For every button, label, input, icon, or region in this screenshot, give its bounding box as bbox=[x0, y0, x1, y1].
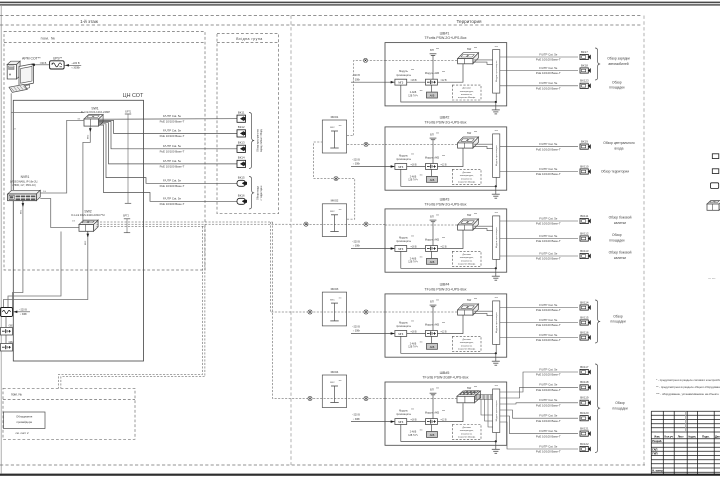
svg-text:ШВ#5: ШВ#5 bbox=[440, 371, 450, 375]
group text area row5 bbox=[612, 401, 627, 410]
cable label F/UTP ВК119 bbox=[536, 398, 561, 407]
svg-text:PoE 10/100 Base-T: PoE 10/100 Base-T bbox=[536, 338, 561, 342]
svg-text:PoE 10/100 Base-T: PoE 10/100 Base-T bbox=[160, 150, 185, 154]
svg-text:Датчики: Датчики bbox=[462, 172, 471, 174]
svg-text:вскрытия Шкафа: вскрытия Шкафа bbox=[458, 181, 476, 184]
text side gate 2 bbox=[609, 251, 632, 260]
svg-text:***: *** bbox=[420, 341, 423, 344]
battery GB1 bbox=[1, 317, 15, 336]
cabinet ШВ#3 box bbox=[385, 209, 507, 272]
svg-text:***: *** bbox=[436, 132, 439, 136]
svg-text:ВК17: ВК17 bbox=[581, 50, 588, 54]
surge module МГЗ of ШВ#4 bbox=[395, 320, 414, 336]
svg-text:F/UTP Cat. 5e: F/UTP Cat. 5e bbox=[539, 81, 558, 85]
camera ВК120 bbox=[580, 411, 591, 421]
surge module МГЗ of ШВ#1 bbox=[395, 69, 414, 85]
surge module МГЗ of ШВ#5 bbox=[395, 408, 414, 424]
svg-text:грозозащиты: грозозащиты bbox=[396, 158, 411, 161]
legend icon UPS bbox=[711, 183, 719, 189]
svg-text:МК01: МК01 bbox=[331, 115, 339, 119]
camera feed wires of ШВ#4 bbox=[500, 308, 578, 338]
svg-text:ШВ#3: ШВ#3 bbox=[440, 198, 450, 202]
cable label F/UTP BK15 bbox=[160, 179, 185, 188]
cabinet ШВ#2 title bbox=[424, 116, 466, 125]
power stub below NVR bbox=[20, 201, 24, 214]
svg-text:влажности,: влажности, bbox=[461, 94, 473, 96]
switch SW of ШВ#3 bbox=[458, 212, 479, 230]
cable label F/UTP ВК114 bbox=[536, 303, 561, 312]
cable label F/UTP ВК113 bbox=[536, 251, 561, 260]
ground symbol of ШВ#5 bbox=[492, 445, 500, 453]
svg-text:влажности,: влажности, bbox=[461, 433, 473, 435]
surge protection module of ШВ#4 bbox=[493, 296, 500, 344]
svg-text:~220 В: ~220 В bbox=[19, 309, 27, 312]
power supply БП of ШВ#2 bbox=[430, 132, 439, 164]
fiber splice box МК02 bbox=[322, 199, 346, 237]
camera ВК110 bbox=[580, 164, 591, 174]
group text area row4 bbox=[610, 314, 625, 323]
svg-text:SW: SW bbox=[467, 47, 472, 51]
battery АКБ of ШВ#1 bbox=[408, 85, 437, 98]
svg-text:PoE 10/100 Base-T: PoE 10/100 Base-T bbox=[536, 257, 561, 261]
svg-text:МКС: МКС bbox=[330, 382, 335, 384]
legend icon camera 2 bbox=[712, 169, 719, 174]
svg-text:БРТ2: БРТ2 bbox=[123, 215, 130, 218]
svg-text:Модуль АКБ: Модуль АКБ bbox=[425, 156, 440, 159]
svg-text:АКБ: АКБ bbox=[430, 95, 435, 98]
fiber uplink MK02 to MK01 bbox=[314, 142, 355, 219]
svg-text:***: *** bbox=[420, 174, 423, 177]
sensors box of ШВ#4 bbox=[452, 336, 481, 351]
svg-text:ВК13: ВК13 bbox=[238, 141, 245, 145]
svg-text:Кол.уч: Кол.уч bbox=[664, 434, 673, 438]
svg-text:***: *** bbox=[339, 125, 342, 128]
svg-text:Обзор: Обзор bbox=[613, 314, 623, 318]
svg-text:МГЗ: МГЗ bbox=[398, 166, 403, 169]
svg-text:=12 В: =12 В bbox=[440, 332, 447, 334]
fiber splice box МК03 bbox=[322, 287, 346, 326]
svg-text:PoE 10/100 Base-T: PoE 10/100 Base-T bbox=[536, 71, 561, 75]
svg-text:F/UTP Cat. 5e: F/UTP Cat. 5e bbox=[539, 251, 558, 255]
sheet top border bbox=[0, 2, 720, 4]
svg-text:Датчики: Датчики bbox=[462, 339, 471, 341]
svg-text:Модуль грозозащиты: Модуль грозозащиты bbox=[496, 60, 498, 82]
svg-text:1-й этаж: 1-й этаж bbox=[80, 18, 99, 24]
svg-text:=36 В: =36 В bbox=[40, 62, 47, 65]
svg-text:МКС: МКС bbox=[330, 127, 335, 129]
sensors box of ШВ#1 bbox=[452, 85, 481, 100]
svg-text:F/UTP Cat. 5e: F/UTP Cat. 5e bbox=[163, 197, 182, 201]
camera feed wires of ШВ#5 bbox=[500, 372, 578, 449]
wire МГЗ to АКБ =18V ШВ#4 bbox=[407, 332, 426, 334]
fiber pair to provider room sheet 2 bbox=[59, 226, 205, 388]
svg-text:F/UTP Cat. 5e: F/UTP Cat. 5e bbox=[539, 142, 558, 146]
svg-text:SW: SW bbox=[467, 131, 472, 135]
svg-text:***: *** bbox=[339, 297, 342, 300]
svg-text:грозозащиты: грозозащиты bbox=[396, 325, 411, 328]
camera ВК111 bbox=[580, 214, 591, 224]
svg-text:=12 В: =12 В bbox=[440, 247, 447, 249]
svg-text:ВК111: ВК111 bbox=[580, 214, 588, 218]
power stub ~220V ШВ#5 bbox=[351, 413, 395, 422]
wires SW to surge module ШВ#3 bbox=[474, 226, 493, 231]
svg-text:Разраб.: Разраб. bbox=[652, 439, 662, 443]
svg-text:МК02: МК02 bbox=[331, 199, 339, 203]
entrance group box Вхідна група bbox=[217, 34, 279, 214]
power stub ~220V ШВ#2 bbox=[351, 158, 395, 167]
ground symbol of ШВ#4 bbox=[492, 357, 500, 365]
svg-text:SW: SW bbox=[467, 386, 472, 390]
ground symbol of ШВ#3 bbox=[492, 272, 500, 280]
camera ВК114 bbox=[580, 300, 591, 310]
sensors box of ШВ#2 bbox=[452, 169, 481, 184]
fiber slack coil on bundle bbox=[304, 222, 308, 226]
brace BK114-BK116 bbox=[595, 300, 600, 343]
svg-text:Изм.: Изм. bbox=[654, 434, 660, 438]
fiber slack coil before cabinet 1 bbox=[363, 58, 367, 62]
svg-text:F/UTP Cat. 5e: F/UTP Cat. 5e bbox=[539, 414, 558, 418]
fiber slack coil before cabinet 2 bbox=[364, 142, 368, 146]
svg-text:PoE 10/100 Base-T: PoE 10/100 Base-T bbox=[160, 202, 185, 206]
svg-text:SW: SW bbox=[467, 298, 472, 302]
fiber bundle SW2 output bbox=[97, 222, 307, 226]
svg-text:PoE 10/100 Base-T: PoE 10/100 Base-T bbox=[536, 172, 561, 176]
svg-text:Модуль АКБ: Модуль АКБ bbox=[425, 238, 440, 241]
camera BK16 bbox=[237, 194, 247, 205]
camera feed wires of ШВ#3 bbox=[500, 221, 578, 256]
svg-text:~220 В: ~220 В bbox=[72, 62, 80, 65]
battery АКБ of ШВ#2 bbox=[408, 169, 437, 182]
svg-text:***: *** bbox=[436, 47, 439, 51]
svg-text:ШВ#4: ШВ#4 bbox=[440, 283, 450, 287]
svg-text:Н. контр.: Н. контр. bbox=[652, 468, 664, 472]
svg-text:ВК116: ВК116 bbox=[580, 330, 589, 334]
svg-text:F/UTP Cat. 5e: F/UTP Cat. 5e bbox=[539, 444, 558, 448]
svg-text:***: *** bbox=[339, 209, 342, 212]
svg-text:=18 В: =18 В bbox=[410, 165, 417, 167]
cable label F/UTP BK14 bbox=[160, 159, 185, 168]
svg-text:температуры,: температуры, bbox=[460, 175, 474, 177]
svg-text:температуры,: температуры, bbox=[460, 430, 474, 432]
svg-text:***: *** bbox=[436, 299, 439, 303]
svg-text:с территории: с территории bbox=[260, 185, 263, 200]
svg-text:** - предусмотрено в разделе о: ** - предусмотрено в разделе общего обор… bbox=[656, 385, 720, 389]
svg-text:***: *** bbox=[411, 320, 414, 323]
svg-text:PoE 10/100 Base-T: PoE 10/100 Base-T bbox=[536, 404, 561, 408]
cable label F/UTP ВК110 bbox=[536, 167, 561, 176]
svg-text:см. лист 2: см. лист 2 bbox=[15, 431, 29, 435]
svg-text:площадки: площадки bbox=[610, 320, 625, 324]
cable label F/UTP ВК18 bbox=[536, 66, 561, 75]
svg-text:Обзор: Обзор bbox=[612, 80, 622, 84]
brace cameras BK11-BK14 bbox=[249, 113, 254, 169]
svg-text:12В 7А*ч: 12В 7А*ч bbox=[408, 434, 418, 437]
power stub ~220V ШВ#1 bbox=[351, 74, 395, 83]
cabinet ШВ#1 title bbox=[424, 31, 466, 40]
svg-text:***: *** bbox=[442, 322, 445, 325]
power rail from switch area to UPS bbox=[8, 232, 61, 308]
svg-text:ВК115: ВК115 bbox=[580, 315, 589, 319]
wires SW1 to cameras BK11-BK16 bbox=[99, 119, 238, 202]
fiber line to MK03 bbox=[270, 222, 385, 312]
power stub ~220V into UPS2 bbox=[13, 309, 31, 317]
svg-text:***: *** bbox=[420, 429, 423, 432]
svg-text:D-Link DGS-3420-24SC/*SI: D-Link DGS-3420-24SC/*SI bbox=[71, 213, 104, 217]
svg-text:SW2: SW2 bbox=[84, 210, 91, 214]
svg-text:Модуль АКБ: Модуль АКБ bbox=[425, 323, 440, 326]
fiber inside ШВ#2 bbox=[385, 143, 459, 145]
svg-text:ВК113: ВК113 bbox=[580, 249, 589, 253]
svg-text:PoE 10/100 Base-T: PoE 10/100 Base-T bbox=[160, 119, 185, 123]
cabinet ШВ#2 box bbox=[385, 127, 507, 190]
battery module АКБ of ШВ#4 bbox=[425, 322, 445, 336]
cabinet ШВ#4 title bbox=[424, 283, 466, 292]
svg-text:см. поз.: см. поз. bbox=[708, 278, 716, 280]
cabinet ШВ#1 box bbox=[385, 43, 507, 106]
svg-text:***: *** bbox=[411, 408, 414, 411]
svg-text:***: *** bbox=[495, 45, 498, 49]
svg-text:1G: 1G bbox=[77, 118, 80, 120]
power stub ~220V into UPS bbox=[64, 62, 81, 69]
svg-text:автомобилей: автомобилей bbox=[608, 62, 628, 66]
power stub ~220V ШВ#3 bbox=[351, 240, 395, 249]
ground symbol БРТ1 bbox=[125, 111, 132, 204]
camera ВК19 bbox=[580, 139, 591, 149]
camera ВК18 bbox=[580, 63, 591, 73]
svg-text:F/UTP Cat. 5e: F/UTP Cat. 5e bbox=[539, 383, 558, 387]
svg-text:Обзор: Обзор bbox=[612, 233, 622, 237]
svg-text:TFortis PSW-2G+UPS-Box: TFortis PSW-2G+UPS-Box bbox=[424, 120, 466, 124]
svg-text:БРТ1: БРТ1 bbox=[125, 111, 132, 114]
camera ВК112 bbox=[580, 231, 591, 241]
brace BK117-BK122 bbox=[595, 364, 600, 453]
svg-text:БП: БП bbox=[430, 300, 434, 304]
ground bus of ШВ#5 bbox=[401, 425, 497, 446]
switch SW1 bbox=[81, 107, 110, 127]
wires SW to surge module ШВ#4 bbox=[474, 311, 493, 316]
power supply БП of ШВ#3 bbox=[430, 214, 439, 246]
surge protection module of ШВ#2 bbox=[493, 129, 500, 177]
svg-text:1G: 1G bbox=[72, 221, 75, 223]
power supply БП of ШВ#4 bbox=[430, 299, 439, 331]
room boundary box пом.№ bbox=[4, 32, 205, 271]
camera ВК119 bbox=[580, 396, 591, 406]
svg-text:PoE 10/100 Base-T: PoE 10/100 Base-T bbox=[536, 323, 561, 327]
provider equipment box bbox=[4, 412, 46, 429]
UPS of central node bbox=[1, 308, 13, 317]
svg-text:D-Link DGS-1210-24MP: D-Link DGS-1210-24MP bbox=[81, 110, 110, 114]
svg-text:***: *** bbox=[420, 90, 423, 93]
camera BK14 bbox=[237, 156, 246, 168]
svg-text:***: *** bbox=[474, 130, 477, 134]
svg-text:12В 7А*ч: 12В 7А*ч bbox=[408, 261, 418, 264]
svg-text:SW: SW bbox=[467, 213, 472, 217]
svg-text:входа: входа bbox=[615, 146, 624, 150]
svg-text:температуры,: температуры, bbox=[460, 257, 474, 259]
svg-text:МКС: МКС bbox=[330, 299, 335, 301]
svg-text:ВК119: ВК119 bbox=[580, 396, 589, 400]
legend icon switch bbox=[707, 201, 720, 211]
ground symbol of ШВ#2 bbox=[492, 190, 500, 198]
svg-text:≈ 30Вт: ≈ 30Вт bbox=[353, 245, 361, 248]
zone right boundary vertical bbox=[643, 16, 645, 466]
ground symbol БРТ2 bbox=[123, 215, 130, 233]
wires SW to surge module ШВ#1 bbox=[474, 60, 493, 65]
cable label F/UTP ВК17 bbox=[536, 52, 561, 61]
svg-text:Обладнання: Обладнання bbox=[16, 415, 33, 419]
svg-text:F/UTP Cat. 5e: F/UTP Cat. 5e bbox=[539, 429, 558, 433]
svg-text:ШВ#1: ШВ#1 bbox=[440, 31, 450, 35]
svg-text:Дата: Дата bbox=[715, 434, 720, 438]
svg-text:АКБ: АКБ bbox=[430, 261, 435, 264]
svg-text:=18 В: =18 В bbox=[410, 332, 417, 334]
svg-text:влажности,: влажности, bbox=[461, 345, 473, 347]
svg-text:F/UTP Cat. 5e: F/UTP Cat. 5e bbox=[539, 333, 558, 337]
svg-text:МГЗ: МГЗ bbox=[398, 333, 403, 336]
svg-text:***: *** bbox=[411, 69, 414, 72]
fiber slack coil on MK01 uplink bbox=[334, 177, 338, 181]
svg-text:F/UTP Cat. 5e: F/UTP Cat. 5e bbox=[163, 129, 182, 133]
svg-text:***: *** bbox=[436, 214, 439, 218]
sensors box of ШВ#3 bbox=[452, 251, 481, 266]
svg-text:2-АКБ: 2-АКБ bbox=[410, 343, 417, 346]
svg-text:PoE 10/100 Base-T: PoE 10/100 Base-T bbox=[536, 419, 561, 423]
svg-text:МК04: МК04 bbox=[331, 370, 339, 374]
switch SW of ШВ#2 bbox=[458, 130, 479, 148]
camera ВК123 bbox=[580, 79, 591, 89]
svg-text:SW1: SW1 bbox=[91, 107, 98, 111]
svg-text:2-АКБ: 2-АКБ bbox=[410, 431, 417, 434]
svg-text:пом. №: пом. № bbox=[11, 392, 22, 396]
svg-text:F/UTP Cat. 5e: F/UTP Cat. 5e bbox=[539, 216, 558, 220]
svg-text:БП: БП bbox=[430, 215, 434, 219]
svg-text:Обзор: Обзор bbox=[615, 401, 625, 405]
surge module МГЗ of ШВ#3 bbox=[395, 235, 414, 251]
legend icon camera 1 bbox=[712, 154, 719, 159]
svg-text:PoE 10/100 Base-T: PoE 10/100 Base-T bbox=[536, 147, 561, 151]
svg-text:вскрытия Шкафа: вскрытия Шкафа bbox=[458, 263, 476, 266]
surge protection module of ШВ#1 bbox=[493, 45, 500, 93]
svg-text:***: *** bbox=[436, 387, 439, 391]
wire АКБ to SW =12V ШВ#4 bbox=[437, 315, 463, 333]
camera feed wires of ШВ#1 bbox=[500, 57, 578, 86]
svg-text:***: *** bbox=[474, 46, 477, 50]
svg-text:ВК112: ВК112 bbox=[580, 231, 589, 235]
svg-text:***: *** bbox=[474, 385, 477, 389]
svg-text:***: *** bbox=[442, 71, 445, 74]
svg-text:Датчики: Датчики bbox=[462, 427, 471, 429]
svg-text:Модуль АКБ: Модуль АКБ bbox=[425, 72, 440, 75]
svg-text:ВК121: ВК121 bbox=[580, 426, 589, 430]
svg-text:***: *** bbox=[495, 211, 498, 215]
fiber inside ШВ#5 bbox=[385, 398, 459, 400]
svg-text:МГЗ: МГЗ bbox=[398, 82, 403, 85]
svg-text:калитки: калитки bbox=[614, 256, 626, 260]
svg-text:=12 В: =12 В bbox=[440, 420, 447, 422]
camera ВК113 bbox=[580, 249, 591, 259]
svg-text:ВК118: ВК118 bbox=[580, 380, 589, 384]
svg-text:№док.: №док. bbox=[688, 435, 696, 438]
svg-text:вскрытия Шкафа: вскрытия Шкафа bbox=[458, 436, 476, 439]
svg-text:=18 В: =18 В bbox=[410, 247, 417, 249]
svg-text:ГИП: ГИП bbox=[652, 452, 657, 456]
svg-text:12В 7А*ч: 12В 7А*ч bbox=[408, 346, 418, 349]
svg-text:PoE 10/100 Base-T: PoE 10/100 Base-T bbox=[536, 388, 561, 392]
wire SW1 to SW2 uplink bbox=[83, 126, 92, 223]
svg-text:ВК117: ВК117 bbox=[580, 365, 589, 369]
provider room dashed box bbox=[3, 388, 135, 439]
wire МГЗ to АКБ =18V ШВ#2 bbox=[407, 165, 426, 167]
workstation АРМ СОТ bbox=[7, 57, 41, 93]
power rail NVR to UPS bbox=[13, 207, 23, 308]
svg-text:F/UTP Cat. 5e: F/UTP Cat. 5e bbox=[163, 159, 182, 163]
camera ВК17 bbox=[580, 50, 591, 60]
svg-text:пом. №: пом. № bbox=[41, 36, 56, 40]
svg-text:ВК15: ВК15 bbox=[238, 176, 245, 180]
switch SW2 bbox=[71, 210, 104, 232]
svg-text:12В 7А*ч: 12В 7А*ч bbox=[408, 94, 418, 97]
central node box ЦН СОТ bbox=[13, 100, 143, 361]
svg-text:NVR1: NVR1 bbox=[21, 175, 30, 179]
svg-text:ВК120: ВК120 bbox=[580, 411, 589, 415]
svg-text:грозозащиты: грозозащиты bbox=[396, 240, 411, 243]
svg-text:F/UTP Cat. 5e: F/UTP Cat. 5e bbox=[539, 66, 558, 70]
svg-text:Модуль грозозащиты: Модуль грозозащиты bbox=[496, 312, 498, 334]
svg-text:***: *** bbox=[495, 296, 498, 300]
svg-text:влажности,: влажности, bbox=[461, 260, 473, 262]
battery module АКБ of ШВ#3 bbox=[425, 237, 445, 251]
wire МГЗ to АКБ =18V ШВ#5 bbox=[407, 420, 426, 422]
svg-text:ШВ#2: ШВ#2 bbox=[440, 116, 450, 120]
svg-text:PoE 10/100 Base-T: PoE 10/100 Base-T bbox=[536, 373, 561, 377]
svg-text:PoE 10/100 Base-T: PoE 10/100 Base-T bbox=[536, 87, 561, 91]
svg-text:перед Кабінет Збору: перед Кабінет Збору bbox=[260, 128, 263, 152]
svg-text:Обзор центрального: Обзор центрального bbox=[603, 141, 635, 145]
cable label F/UTP ВК123 bbox=[536, 81, 561, 91]
camera ВК116 bbox=[580, 330, 591, 340]
cabinet ШВ#4 box bbox=[385, 294, 507, 357]
camera feed wires of ШВ#2 bbox=[500, 147, 578, 172]
svg-text:2HDD, №*, PRG.10): 2HDD, №*, PRG.10) bbox=[12, 183, 36, 187]
power stub ~220V ШВ#4 bbox=[351, 325, 395, 334]
svg-text:Модуль: Модуль bbox=[399, 155, 409, 158]
svg-text:ВК122: ВК122 bbox=[580, 442, 589, 446]
svg-text:вскрытия Шкафа: вскрытия Шкафа bbox=[458, 348, 476, 351]
svg-text:≈ 30Вт: ≈ 30Вт bbox=[20, 313, 28, 316]
svg-text:***: *** bbox=[442, 410, 445, 413]
svg-text:Датчики: Датчики bbox=[462, 88, 471, 90]
svg-text:F/UTP Cat. 5e: F/UTP Cat. 5e bbox=[539, 52, 558, 56]
svg-text:МК03: МК03 bbox=[331, 287, 339, 291]
svg-text:F/UTP Cat. 5e: F/UTP Cat. 5e bbox=[539, 167, 558, 171]
svg-text:~220 В: ~220 В bbox=[352, 413, 360, 416]
group text charging area bbox=[607, 57, 630, 66]
switch SW of ШВ#4 bbox=[458, 297, 479, 315]
svg-text:Лист: Лист bbox=[678, 435, 685, 438]
wire АКБ to SW =12V ШВ#1 bbox=[437, 64, 463, 82]
svg-text:Модуль: Модуль bbox=[399, 322, 409, 325]
svg-text:=12 В: =12 В bbox=[440, 165, 447, 167]
wire UPS to workstation =36V bbox=[32, 62, 50, 66]
svg-text:БП: БП bbox=[430, 388, 434, 392]
svg-text:***: *** bbox=[339, 380, 342, 383]
ground bus of ШВ#3 bbox=[401, 251, 497, 272]
fiber splice box МК04 bbox=[322, 370, 346, 408]
svg-text:~220 В: ~220 В bbox=[352, 158, 360, 161]
text BK123 area bbox=[609, 80, 624, 89]
svg-text:Обзор зарядки: Обзор зарядки bbox=[607, 57, 630, 61]
svg-text:МГЗ: МГЗ bbox=[398, 248, 403, 251]
